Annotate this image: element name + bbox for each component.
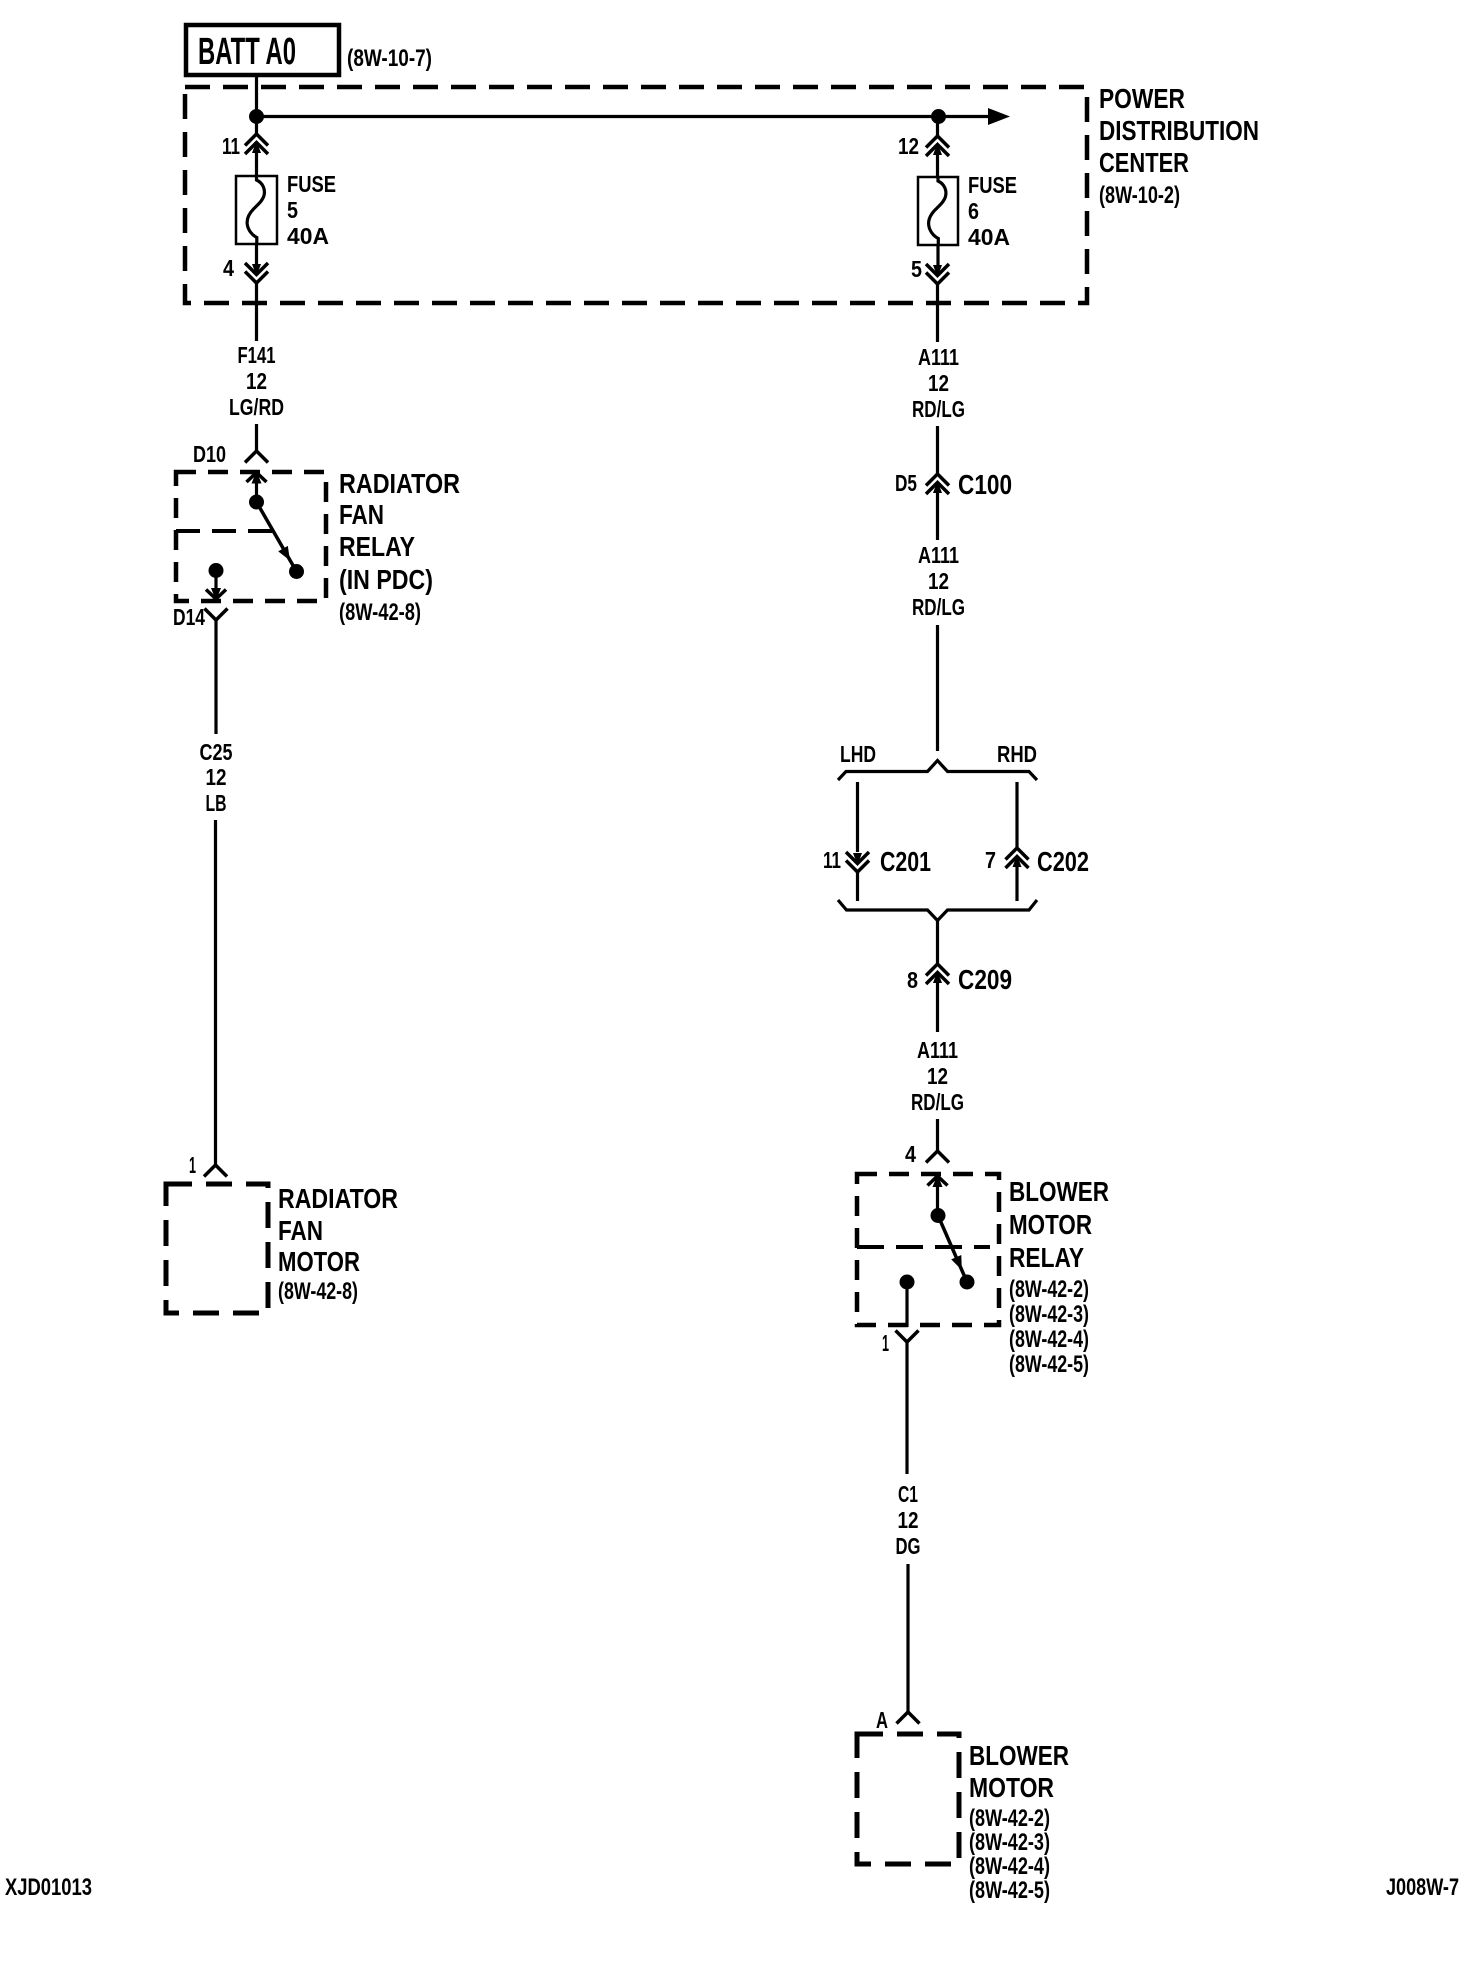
svg-text:40A: 40A: [287, 223, 329, 249]
svg-text:(8W-10-2): (8W-10-2): [1099, 182, 1180, 209]
svg-text:RADIATOR: RADIATOR: [278, 1183, 398, 1214]
svg-text:BATT A0: BATT A0: [198, 31, 296, 73]
svg-text:(IN PDC): (IN PDC): [339, 564, 433, 595]
svg-text:11: 11: [222, 133, 240, 159]
svg-text:12: 12: [206, 764, 227, 790]
svg-text:RELAY: RELAY: [1009, 1242, 1084, 1273]
svg-text:12: 12: [927, 1063, 948, 1089]
svg-text:FUSE: FUSE: [287, 171, 336, 197]
svg-text:MOTOR: MOTOR: [969, 1772, 1054, 1803]
svg-text:FAN: FAN: [339, 499, 384, 530]
svg-text:C209: C209: [958, 964, 1012, 995]
svg-text:C100: C100: [958, 469, 1012, 500]
svg-text:XJD01013: XJD01013: [5, 1874, 92, 1901]
svg-text:(8W-42-2): (8W-42-2): [969, 1805, 1050, 1832]
svg-text:(8W-10-7): (8W-10-7): [347, 45, 432, 72]
svg-text:A111: A111: [918, 344, 959, 370]
svg-text:D14: D14: [173, 604, 205, 630]
svg-text:(8W-42-3): (8W-42-3): [969, 1829, 1050, 1856]
svg-text:11: 11: [823, 847, 841, 873]
svg-text:(8W-42-4): (8W-42-4): [969, 1853, 1050, 1880]
svg-text:D10: D10: [193, 441, 226, 467]
svg-text:RADIATOR: RADIATOR: [339, 468, 460, 499]
svg-text:(8W-42-4): (8W-42-4): [1009, 1326, 1089, 1353]
svg-text:LG/RD: LG/RD: [229, 394, 284, 420]
svg-text:7: 7: [985, 847, 996, 873]
svg-text:D5: D5: [895, 470, 917, 496]
svg-text:12: 12: [898, 1507, 919, 1533]
svg-text:J008W-7: J008W-7: [1386, 1874, 1459, 1901]
svg-text:8: 8: [907, 967, 918, 993]
svg-text:5: 5: [287, 197, 298, 223]
svg-text:A111: A111: [917, 1037, 958, 1063]
svg-text:RHD: RHD: [997, 741, 1037, 767]
svg-text:LB: LB: [206, 790, 227, 816]
svg-text:LHD: LHD: [840, 741, 876, 767]
svg-text:12: 12: [898, 133, 919, 159]
svg-text:(8W-42-8): (8W-42-8): [278, 1278, 358, 1305]
svg-text:MOTOR: MOTOR: [1009, 1209, 1092, 1240]
svg-text:5: 5: [911, 256, 922, 282]
svg-text:FUSE: FUSE: [968, 172, 1017, 198]
svg-text:RD/LG: RD/LG: [912, 594, 965, 620]
svg-text:C25: C25: [200, 739, 233, 765]
svg-text:(8W-42-5): (8W-42-5): [969, 1877, 1050, 1904]
svg-text:4: 4: [905, 1141, 916, 1167]
svg-text:(8W-42-3): (8W-42-3): [1009, 1301, 1089, 1328]
svg-text:FAN: FAN: [278, 1215, 323, 1246]
svg-text:A: A: [876, 1707, 888, 1733]
svg-text:6: 6: [968, 198, 979, 224]
svg-text:4: 4: [223, 255, 234, 281]
svg-text:C1: C1: [898, 1481, 918, 1507]
svg-text:RELAY: RELAY: [339, 531, 415, 562]
svg-text:BLOWER: BLOWER: [1009, 1176, 1109, 1207]
svg-text:12: 12: [928, 568, 949, 594]
svg-text:F141: F141: [238, 342, 276, 368]
svg-text:POWER: POWER: [1099, 83, 1185, 114]
svg-text:A111: A111: [918, 542, 959, 568]
svg-text:DG: DG: [896, 1533, 921, 1559]
svg-text:12: 12: [928, 370, 949, 396]
svg-text:BLOWER: BLOWER: [969, 1740, 1069, 1771]
svg-text:(8W-42-5): (8W-42-5): [1009, 1351, 1089, 1378]
svg-text:MOTOR: MOTOR: [278, 1246, 360, 1277]
svg-text:40A: 40A: [968, 224, 1010, 250]
svg-text:12: 12: [246, 368, 267, 394]
svg-text:CENTER: CENTER: [1099, 147, 1189, 178]
svg-text:RD/LG: RD/LG: [911, 1089, 964, 1115]
svg-text:DISTRIBUTION: DISTRIBUTION: [1099, 115, 1259, 146]
svg-text:(8W-42-8): (8W-42-8): [339, 599, 421, 626]
svg-text:1: 1: [189, 1152, 196, 1178]
svg-text:1: 1: [882, 1330, 889, 1356]
svg-text:C202: C202: [1037, 846, 1089, 877]
svg-text:C201: C201: [880, 846, 931, 877]
svg-text:(8W-42-2): (8W-42-2): [1009, 1276, 1089, 1303]
svg-text:RD/LG: RD/LG: [912, 396, 965, 422]
